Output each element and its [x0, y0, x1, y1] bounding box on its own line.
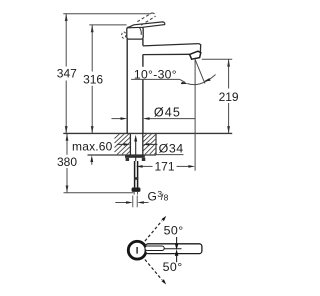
svg-text:8: 8 — [164, 192, 169, 202]
body circle — [128, 241, 146, 259]
svg-text:50°: 50° — [164, 223, 184, 237]
faucet column — [126, 39, 128, 134]
dimension 347 vertical line — [65, 14, 67, 134]
dashed raised lever — [137, 13, 155, 25]
hose centerline in shank with up arrow — [135, 138, 137, 161]
G3/8 dim arrows — [115, 202, 126, 204]
dashed swivel line down — [145, 260, 162, 280]
shelf under O34 label — [156, 154, 184, 156]
svg-text:G: G — [148, 189, 157, 203]
handle bar — [146, 244, 202, 254]
deck hatch left part — [115, 134, 131, 155]
deck right face — [155, 133, 157, 155]
dashed swivel line up — [145, 221, 162, 241]
50 deg bottom arrow — [176, 256, 178, 262]
extension line top (347 level) — [63, 13, 151, 15]
svg-text:219: 219 — [219, 90, 239, 104]
dimension 316 arrows — [91, 25, 94, 32]
spout tip extension line down to 171 — [194, 60, 196, 171]
G 3/8 connector nut — [132, 188, 141, 192]
lever handle — [127, 22, 164, 28]
max.60 bottom arrow — [91, 158, 93, 165]
dashed cartridge ellipse on cap — [122, 32, 126, 38]
svg-text:380: 380 — [57, 155, 77, 169]
50 deg top arrow — [176, 237, 178, 243]
lever joint inner line — [139, 27, 141, 34]
deck hatch right part — [143, 134, 156, 155]
handle midline — [164, 248, 181, 250]
arc arrowhead at ray — [204, 78, 211, 81]
locknut studs — [126, 158, 130, 161]
svg-text:max.60: max.60 — [72, 140, 113, 154]
svg-text:316: 316 — [83, 73, 103, 87]
label 10-30 with leader — [133, 67, 177, 79]
cap (cartridge housing) — [127, 27, 143, 39]
extension line (316 level) — [89, 24, 126, 26]
dimension 171 — [141, 165, 190, 167]
svg-text:50°: 50° — [163, 260, 183, 274]
svg-text:Ø45: Ø45 — [154, 105, 181, 119]
219 top extension line — [202, 58, 232, 60]
handle slot — [145, 246, 164, 251]
aerator outlet — [190, 51, 201, 59]
G3/8 dim extension ticks — [132, 196, 134, 208]
svg-text:347: 347 — [57, 67, 77, 81]
dimension 316 vertical line — [91, 25, 93, 133]
spout — [143, 44, 199, 46]
center tick — [136, 247, 138, 254]
spray angle arc — [188, 75, 216, 85]
deck top line — [63, 132, 232, 134]
svg-text:Ø34: Ø34 — [159, 141, 184, 155]
dimension O34 — [117, 143, 124, 145]
spray angle ray — [195, 59, 205, 84]
dimension 219 vertical — [228, 59, 230, 133]
deck bottom line with extensions — [88, 154, 157, 156]
locknut bar — [125, 155, 145, 157]
extension line bottom (hose end level) — [64, 192, 134, 194]
dimension O45 — [112, 118, 121, 120]
thread tails — [133, 192, 135, 195]
shank hole edges through deck — [129, 133, 131, 155]
dimension 380 arrows — [66, 133, 69, 140]
flexible hose — [134, 161, 136, 188]
dimension 380 vertical line — [66, 133, 68, 192]
svg-text:171: 171 — [154, 159, 174, 173]
dimension 347 arrows — [65, 14, 68, 21]
